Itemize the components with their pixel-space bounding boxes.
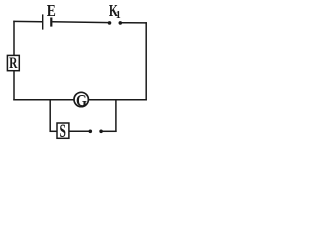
svg-text:S: S	[60, 122, 66, 142]
svg-text:G: G	[76, 92, 87, 110]
svg-text:1: 1	[116, 10, 121, 21]
svg-text:E: E	[47, 2, 56, 21]
svg-text:R: R	[9, 56, 18, 73]
